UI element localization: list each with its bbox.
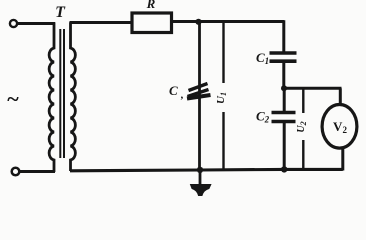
wire secondary top to resistor [70,21,132,24]
wire C2 to bottom rail [283,123,286,171]
voltage arrow U2 line lower [302,140,304,170]
wire C1 to middle node [282,63,285,90]
wire bottom rail (secondary to voltmeter) [70,169,343,170]
node dot middle [281,85,287,91]
voltage arrow U2 line upper [302,88,304,113]
svg-text:R: R [146,0,156,11]
svg-text:C: C [169,83,178,98]
node junction dot on top rail [195,19,201,25]
wire middle node down to C2 [283,88,286,111]
wire bottom-left to transformer primary [20,170,56,173]
node dot bottom ground junction [197,167,203,173]
node dot bottom C2 junction [281,166,287,172]
wire voltmeter to bottom rail [341,148,344,171]
ground symbol [191,185,211,196]
wire resistor to top-right corner [173,20,284,23]
wire top-left to transformer primary [18,22,56,25]
middle horizontal wire [283,87,342,90]
capacitor C1 [270,51,297,55]
terminal top-left [10,20,17,27]
svg-text:~: ~ [7,86,19,111]
voltmeter V2 [322,105,357,149]
voltage arrow U1 line lower [222,112,224,169]
resistor R [132,13,172,33]
voltage arrow U1 line upper [222,22,224,84]
transformer T primary winding [49,22,54,172]
svg-text:,: , [180,89,184,101]
wire top corner down to C1 [282,20,285,52]
transformer T secondary winding [71,22,76,171]
ground stub wire [199,170,202,186]
zener diode Cst symbol [187,84,211,99]
svg-text:T: T [55,4,66,21]
capacitor C2 [272,111,296,115]
wire middle to voltmeter top [339,88,342,105]
zener branch wire [198,22,201,170]
terminal bottom-left [12,168,20,176]
transformer core [59,29,61,158]
